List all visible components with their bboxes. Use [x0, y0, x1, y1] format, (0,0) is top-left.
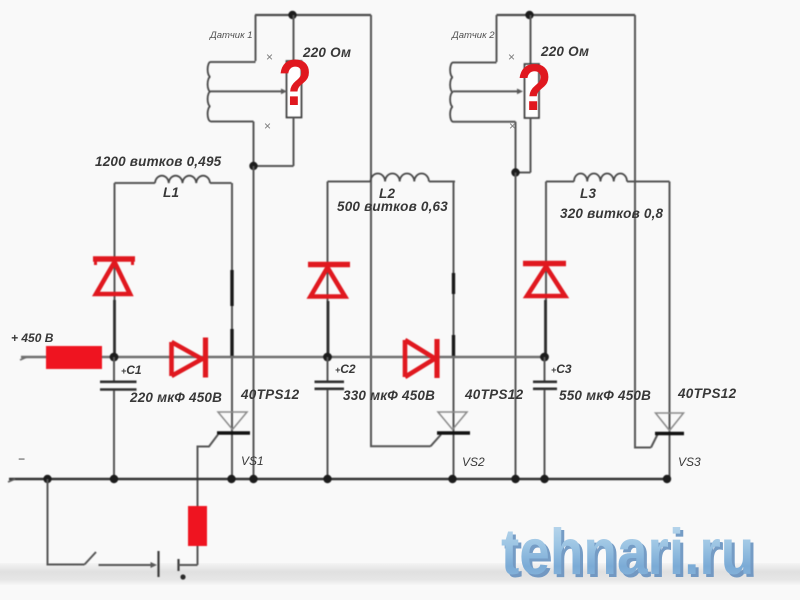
label: 40TPS12 #2 — [465, 387, 523, 402]
wire: sensor 1 middle tap with arrow — [211, 90, 284, 92]
label: 220 Ом (sensor 2) — [541, 44, 589, 59]
red annotation: rectangle on VS1 gate wire — [188, 506, 207, 546]
bottom gray band — [0, 563, 800, 585]
wire: L3 left branch — [545, 182, 547, 358]
inductor L2 coil — [371, 174, 429, 182]
wire: L2 right branch to VS2 anode — [453, 182, 455, 480]
red annotation: question mark 1 — [278, 45, 312, 120]
wire: sensor 2 winding bottom — [453, 121, 516, 123]
label: x mark bottom sensor 2 — [509, 119, 516, 133]
wire: winding bottom down — [253, 122, 255, 167]
wire: L1 right branch thick segment a — [230, 270, 233, 306]
resistor R4 (220 Om, sensor 2) — [525, 64, 540, 118]
label: 330 мкФ 450В — [343, 388, 435, 403]
wire: resistor R3 bottom lead — [293, 118, 295, 167]
wire: VS2 gate diagonal — [431, 435, 442, 447]
label: 220 Ом (sensor 1) — [303, 45, 351, 60]
capacitor C3 — [544, 357, 546, 381]
wire: resistor R4 bottom lead — [530, 118, 532, 173]
capacitor C1 — [113, 357, 115, 381]
wire: top dot to resistor R4 — [530, 15, 532, 64]
label: L3 — [580, 186, 596, 201]
wire: L2 right branch thick segment b — [452, 335, 455, 356]
battery GB1 short electrode — [177, 559, 179, 571]
wire: top dot to resistor R3 — [293, 15, 295, 61]
label: minus sign — [18, 452, 25, 466]
wire: sensor 2 top step to winding — [453, 62, 497, 64]
wire: VS3 gate diagonal — [651, 435, 658, 448]
wire: sensor 1 left vertical — [255, 15, 257, 61]
red annotation: diode D5 on bus — [405, 340, 435, 377]
wire: sensor 2 junction down to lower bus — [515, 173, 517, 480]
transformer winding T2 (sensor 2) — [450, 63, 453, 122]
red annotation: zener D2 over L2 left branch — [308, 262, 350, 268]
node: lower bus dots — [43, 475, 51, 483]
red annotation: question mark 2 — [517, 49, 552, 125]
label: VS2 — [462, 455, 485, 469]
thyristor VS3 — [656, 413, 684, 431]
small dot below battery — [180, 574, 185, 579]
switch SA1 blade — [85, 552, 97, 565]
main bus left tick — [20, 357, 27, 360]
node: bus / C1 / L1 junction — [110, 353, 119, 362]
inductor L1 top wire — [115, 182, 156, 184]
label: x mark top sensor 2 — [508, 50, 515, 64]
label: +C2 — [335, 362, 356, 376]
wire: VS1 gate — [198, 435, 219, 566]
node: bus / C2 / L2 junction — [323, 353, 332, 362]
label: VS1 — [241, 454, 264, 468]
main +450V bus — [21, 356, 545, 359]
wire: sensor 1 junction down to lower bus — [253, 166, 255, 479]
label: L2 — [379, 186, 395, 201]
label: VS3 — [678, 455, 701, 469]
label: 550 мкФ 450В — [559, 388, 651, 403]
node: sensor 2 bottom junction — [511, 168, 519, 176]
node: bus / C3 / L3 junction — [540, 353, 549, 362]
wire: sensor 2 left vertical — [496, 15, 498, 62]
wire: L2 right branch thick segment a — [452, 273, 455, 294]
label: +C3 — [551, 362, 572, 376]
red annotation: rectangle covering +450V input — [46, 346, 102, 369]
label: 40TPS12 #1 — [241, 387, 299, 402]
label: Датчик 1 — [210, 30, 253, 41]
label: 500 витков 0,63 — [337, 199, 448, 214]
wire: sensor 2 bottom horizontal — [516, 172, 531, 174]
wire: L1 left branch — [114, 183, 116, 357]
wire: L3 right branch to VS3 anode — [669, 182, 671, 480]
label: L1 — [163, 185, 179, 200]
inductor L2 top wire — [328, 181, 371, 183]
wire: L2 left branch — [327, 182, 329, 358]
wire: L1 right branch thick segment b — [230, 329, 233, 356]
label: 220 мкФ 450В — [130, 390, 222, 405]
battery GB1 long electrode — [157, 551, 159, 577]
wire: sensor 1 top step to winding — [211, 61, 256, 63]
lower bus left tick — [8, 479, 15, 482]
label: +C1 — [121, 363, 142, 377]
label: x mark bottom sensor 1 — [264, 119, 271, 133]
watermark tehnari.ru — [501, 514, 800, 589]
red annotation: zener D3 over L3 left branch — [523, 261, 566, 267]
transformer winding T1 (sensor 1) — [208, 62, 211, 121]
label: +450 V — [11, 331, 53, 345]
node: sensor 1 bottom junction — [249, 162, 257, 170]
wire: sensor 2 middle tap with arrow — [453, 90, 519, 92]
label: Датчик 2 — [452, 30, 495, 41]
wire: sensor 1 winding bottom — [211, 121, 254, 123]
label: x mark top sensor 1 — [266, 50, 273, 64]
wire: L1 right branch to VS1 anode — [231, 183, 233, 479]
wire: switch to battery with arrow — [99, 564, 152, 566]
trigger loop: left drop — [48, 479, 85, 565]
thyristor VS2 — [438, 412, 467, 430]
wire: sensor 2 right vertical to VS3 gate — [635, 15, 651, 448]
node: sensor 1 top junction — [288, 11, 296, 19]
thyristor VS1 — [218, 412, 247, 430]
inductor L3 top wire — [546, 181, 574, 183]
node: sensor 2 top junction — [525, 11, 533, 19]
label: 320 витков 0,8 — [560, 206, 663, 221]
label: 40TPS12 #3 — [678, 386, 736, 401]
wire: winding 2 bottom down — [515, 122, 517, 173]
label: 1200 витков 0,495 — [95, 154, 221, 169]
wire: sensor 1 bottom horizontal — [254, 165, 294, 167]
inductor L1 coil — [155, 176, 210, 183]
lower bus (minus rail) — [9, 478, 667, 481]
inductor L3 coil — [574, 173, 627, 181]
red annotation: diode D4 on bus — [172, 342, 203, 376]
wire: sensor 1 right vertical to VS2 gate — [371, 15, 431, 446]
red annotation: zener D1 over L1 left branch — [93, 259, 566, 378]
resistor R3 (220 Om, sensor 1) — [287, 61, 302, 118]
wire: sensor 2 top horizontal — [497, 14, 636, 16]
wire: sensor 1 top horizontal — [255, 14, 371, 16]
capacitor C2 — [327, 357, 329, 381]
wire: battery to gate riser — [179, 564, 198, 566]
watermark tehnari.ru shadow — [504, 517, 800, 592]
